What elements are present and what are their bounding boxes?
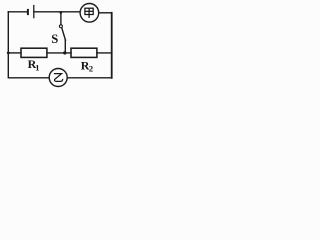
svg-text:S: S bbox=[51, 32, 58, 46]
svg-text:2: 2 bbox=[89, 63, 93, 73]
svg-text:1: 1 bbox=[35, 63, 39, 73]
